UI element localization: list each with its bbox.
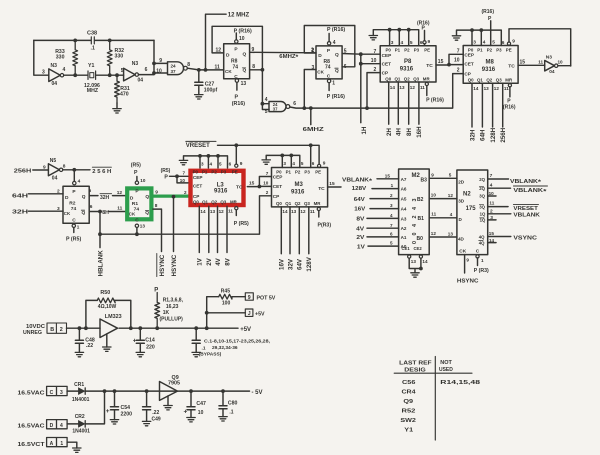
svg-text:Q3: Q3 <box>496 77 502 82</box>
wire L3 TC to M3 <box>247 177 271 189</box>
svg-text:2V: 2V <box>356 235 364 241</box>
svg-text:1K: 1K <box>163 310 170 316</box>
svg-text:NOT: NOT <box>440 360 452 366</box>
svg-text:Q: Q <box>243 68 247 74</box>
pullup P (R16) at M8 P2 pin5 <box>482 9 495 46</box>
svg-text:B: B <box>50 327 54 333</box>
svg-text:32H: 32H <box>100 195 110 201</box>
svg-text:CEP: CEP <box>382 53 392 58</box>
capacitor C80 .1 <box>219 389 238 421</box>
svg-text:CET: CET <box>273 184 283 189</box>
svg-text:HSYNC: HSYNC <box>171 254 178 276</box>
svg-text:04: 04 <box>549 69 555 75</box>
svg-text:2: 2 <box>457 67 460 73</box>
svg-text:14: 14 <box>422 259 428 264</box>
svg-text:P (R5): P (R5) <box>234 221 249 227</box>
pullup P (R16) below R8a <box>232 79 245 107</box>
svg-text:16H: 16H <box>416 126 423 138</box>
svg-text:M2: M2 <box>412 173 421 179</box>
svg-text:2 5 6 H: 2 5 6 H <box>92 169 111 175</box>
flip-flop N2 175 box <box>457 170 488 255</box>
svg-text:HBLANK: HBLANK <box>97 250 104 277</box>
wire HBLANK net <box>98 196 271 248</box>
pullup P (R16) at M8 MR <box>503 84 516 111</box>
svg-text:10: 10 <box>489 191 495 196</box>
svg-text:C.1-8,10-15,17-23,25,26,28,: C.1-8,10-15,17-23,25,26,28, <box>204 339 271 345</box>
svg-text:5: 5 <box>121 68 124 74</box>
svg-text:Q1: Q1 <box>285 201 291 206</box>
svg-text:16V: 16V <box>354 207 365 213</box>
svg-text:10: 10 <box>263 180 269 185</box>
svg-text:Q: Q <box>243 52 247 58</box>
svg-text:12: 12 <box>117 190 123 196</box>
svg-text:N3: N3 <box>546 55 552 61</box>
svg-text:7: 7 <box>266 171 269 176</box>
svg-text:(BYPASS): (BYPASS) <box>199 351 222 357</box>
pullup at M3 PE pin 9 <box>318 160 326 167</box>
svg-text:.1: .1 <box>91 46 95 52</box>
pullup P (R5) at L3 MR <box>234 207 249 227</box>
svg-text:10: 10 <box>156 68 162 74</box>
svg-text:10: 10 <box>140 178 146 183</box>
flip-flop R1 74 highlighted green box <box>127 188 151 223</box>
svg-text:64H: 64H <box>12 193 28 199</box>
svg-text:D: D <box>226 53 230 59</box>
label 10VDC UNREG <box>23 324 45 336</box>
svg-text:12 MHZ: 12 MHZ <box>228 13 250 19</box>
svg-text:PE: PE <box>424 48 430 53</box>
svg-text:12: 12 <box>494 86 500 91</box>
svg-text:C80: C80 <box>228 400 238 406</box>
svg-text:8H: 8H <box>406 128 413 136</box>
svg-text:Q: Q <box>82 194 86 200</box>
svg-text:Q3: Q3 <box>304 201 310 206</box>
svg-text:P: P <box>164 175 168 181</box>
svg-text:11: 11 <box>215 64 221 70</box>
svg-text:.22: .22 <box>152 410 159 416</box>
svg-text:2: 2 <box>390 193 393 198</box>
wire R1 Q to L3 CP highlighted green <box>151 189 190 196</box>
svg-text:+: + <box>184 409 188 416</box>
edge connector B2 <box>47 323 67 333</box>
svg-text:14: 14 <box>489 238 495 243</box>
ground rail above M8 <box>452 28 505 46</box>
wire N2 out VBLANK <box>488 208 540 218</box>
svg-text:330: 330 <box>56 54 65 60</box>
svg-text:(R5): (R5) <box>161 168 171 174</box>
pullup P (R5) at L3 CEP CET <box>161 168 188 183</box>
svg-text:13: 13 <box>140 223 146 228</box>
pullup pin4 P above R2 <box>73 170 81 185</box>
svg-text:1Q: 1Q <box>480 212 486 217</box>
svg-text:8V: 8V <box>224 257 231 265</box>
svg-text:4: 4 <box>401 40 404 46</box>
svg-text:TC: TC <box>508 64 515 70</box>
svg-text:VSYNC: VSYNC <box>513 235 537 241</box>
svg-text:Q2: Q2 <box>211 199 217 204</box>
svg-text:4Q: 4Q <box>479 234 485 239</box>
svg-text:11: 11 <box>489 201 494 206</box>
wire 12MHZ node <box>187 64 223 72</box>
svg-text:P2: P2 <box>404 48 410 53</box>
edge connector C3 <box>47 386 68 395</box>
wire P8 CP tap <box>367 73 380 109</box>
svg-text:8: 8 <box>155 203 158 209</box>
pin labels M3 left <box>263 171 269 195</box>
resistor R50 4A 10W <box>86 290 133 330</box>
svg-text:4D: 4D <box>458 237 465 242</box>
wire N2 out VSYNC <box>488 231 537 241</box>
svg-text:3Q: 3Q <box>479 194 485 199</box>
label 64H input <box>12 189 63 200</box>
ground rail above L3 <box>179 154 231 168</box>
svg-text:N3: N3 <box>132 61 139 67</box>
svg-text:13: 13 <box>291 209 297 214</box>
wire oscillator feedback top rail <box>34 39 154 43</box>
svg-text:11: 11 <box>117 205 122 211</box>
svg-text:P3: P3 <box>496 47 502 52</box>
svg-text:8: 8 <box>187 62 190 68</box>
svg-text:C56: C56 <box>402 380 415 386</box>
wire R1 Qbar HSYNCbar <box>153 203 162 251</box>
svg-text:Q9: Q9 <box>403 399 413 405</box>
wire oscillator left branch <box>34 40 49 75</box>
inverter N3c pins 11,10 (04) <box>538 55 563 75</box>
svg-text:4Q: 4Q <box>479 240 485 245</box>
wire regulator input <box>67 326 101 330</box>
svg-text:9: 9 <box>512 39 515 45</box>
svg-text:2: 2 <box>490 208 493 214</box>
edge connector D4 <box>47 420 68 429</box>
svg-text:74: 74 <box>325 65 331 71</box>
svg-text:P1: P1 <box>286 169 292 174</box>
wire R8a feedback loop D to Qbar <box>212 26 264 71</box>
svg-text:2H: 2H <box>386 128 393 136</box>
chip enables CE1 CE2 of M2 <box>402 246 428 277</box>
svg-text:D: D <box>50 423 54 429</box>
svg-text:4: 4 <box>390 213 393 218</box>
svg-text:CK: CK <box>225 69 232 74</box>
svg-text:(R16): (R16) <box>503 104 516 110</box>
svg-text:100: 100 <box>222 300 231 306</box>
svg-text:128H: 128H <box>490 127 497 142</box>
wire R8a Q output 6MHZ* <box>250 47 316 61</box>
label 16.5VAC row2 <box>18 424 46 430</box>
svg-text:CET: CET <box>382 62 392 67</box>
wire R2 Qbar 8H to R1 CK <box>89 204 125 216</box>
nand gate N2b 24/37 pins 4,5,6 <box>265 97 296 115</box>
pin labels P8 left <box>371 49 377 73</box>
svg-text:6: 6 <box>90 204 93 210</box>
svg-text:16.5VAC: 16.5VAC <box>18 424 46 430</box>
svg-text:4: 4 <box>292 161 295 166</box>
svg-text:1: 1 <box>77 224 80 229</box>
pullup P (R16) above R8b <box>327 27 345 45</box>
wire -5V rail <box>103 389 263 396</box>
flip-flop R8b 74 box <box>316 46 342 80</box>
flip-flop R8a 74 box <box>224 44 250 80</box>
svg-text:37: 37 <box>171 69 177 74</box>
svg-text:P: P <box>134 170 138 176</box>
svg-text:P3: P3 <box>221 170 227 175</box>
svg-text:13: 13 <box>399 85 405 90</box>
svg-text:2: 2 <box>57 189 60 195</box>
svg-text:4: 4 <box>490 182 493 188</box>
svg-text:J: J <box>248 311 251 317</box>
svg-text:12: 12 <box>219 209 225 214</box>
svg-text:9: 9 <box>428 39 431 45</box>
prom M2 box <box>399 169 430 255</box>
svg-text:R50: R50 <box>100 290 110 296</box>
svg-text:P8: P8 <box>404 59 412 65</box>
crystal Y1 12.096 MHZ <box>84 63 100 94</box>
svg-text:P (R5): P (R5) <box>66 236 81 242</box>
svg-text:L3: L3 <box>217 183 225 189</box>
label HSYNC <box>171 254 178 276</box>
wire M3 outputs 16V-128V <box>279 207 316 272</box>
wire 256Hbar node <box>63 167 112 175</box>
wire M8 outputs 32H-256H <box>469 83 509 142</box>
svg-text:2Q: 2Q <box>479 186 485 191</box>
wire HSYNC tap <box>172 195 176 252</box>
svg-text:VRESET: VRESET <box>513 206 538 212</box>
svg-text:15: 15 <box>489 231 495 236</box>
wire R8b clock from 6MHZ rail <box>302 70 316 111</box>
svg-text:74: 74 <box>233 64 239 70</box>
svg-text:5: 5 <box>219 161 222 166</box>
pullup P (R16) at P8 PE pin 9 <box>417 21 431 46</box>
svg-text:4: 4 <box>63 67 66 73</box>
svg-text:470: 470 <box>120 91 129 97</box>
svg-text:37: 37 <box>273 107 278 112</box>
svg-text:2: 2 <box>266 190 269 195</box>
svg-text:(R16): (R16) <box>232 101 245 107</box>
svg-text:PE: PE <box>232 170 238 175</box>
wire P8 TC to M8 <box>436 54 463 66</box>
svg-text:+5V: +5V <box>240 327 251 333</box>
svg-text:5: 5 <box>390 241 393 246</box>
svg-text:9: 9 <box>240 161 243 167</box>
svg-text:1N4001: 1N4001 <box>72 429 90 435</box>
wire inverter N3b output to NAND <box>139 74 155 76</box>
wire N2 out VBLANKbar <box>488 182 548 195</box>
svg-text:C27: C27 <box>205 81 215 87</box>
svg-text:29,32,34-36: 29,32,34-36 <box>212 345 238 351</box>
counter M8 9316 box <box>463 46 518 84</box>
wires M2 inputs <box>367 179 399 246</box>
svg-text:Q0: Q0 <box>468 77 474 82</box>
svg-text:330: 330 <box>115 53 124 59</box>
svg-text:D: D <box>65 195 69 201</box>
svg-text:MR: MR <box>423 77 431 82</box>
svg-text:.1: .1 <box>229 409 233 415</box>
svg-text:N2: N2 <box>463 192 471 198</box>
svg-text:1V: 1V <box>197 257 204 265</box>
svg-text:2: 2 <box>60 327 63 333</box>
label 16.5VCT row3 <box>18 442 45 448</box>
svg-text:VBLANK: VBLANK <box>513 212 540 218</box>
svg-text:13: 13 <box>241 81 247 87</box>
svg-text:B1: B1 <box>418 216 425 222</box>
svg-text:D: D <box>318 53 322 59</box>
pullup resistor R1-K 1K <box>154 287 183 330</box>
svg-text:Q: Q <box>335 52 339 58</box>
svg-text:1V: 1V <box>357 244 365 250</box>
resistor R45 100 and POT 5V <box>205 289 276 331</box>
svg-text:16V: 16V <box>279 258 286 270</box>
table last ref desig / not used <box>394 357 480 441</box>
capacitor C47 10 <box>184 389 207 422</box>
svg-text:10: 10 <box>198 410 204 416</box>
svg-text:1: 1 <box>60 441 63 447</box>
wire R2 Q 32Hbar to R1 D <box>89 188 126 201</box>
svg-text:16.5VCT: 16.5VCT <box>18 442 45 448</box>
svg-text:+5V: +5V <box>255 311 265 317</box>
svg-text:TC: TC <box>426 63 433 69</box>
svg-text:(PULLUP): (PULLUP) <box>160 317 184 323</box>
svg-text:4: 4 <box>78 178 81 184</box>
svg-text:6: 6 <box>312 161 315 166</box>
svg-text:SW2: SW2 <box>400 418 416 424</box>
stub N2 pin 3 <box>488 215 496 221</box>
svg-text:32H: 32H <box>469 129 476 141</box>
svg-text:6MHZ: 6MHZ <box>303 127 325 133</box>
svg-text:3: 3 <box>390 203 393 208</box>
svg-text:POT 5V: POT 5V <box>257 295 276 301</box>
svg-text:9316: 9316 <box>291 189 305 195</box>
svg-text:VRESET: VRESET <box>186 143 210 149</box>
svg-text:13: 13 <box>484 86 490 91</box>
svg-text:CR4: CR4 <box>402 389 416 395</box>
pullup P (R16) at P8 MR <box>425 82 444 103</box>
wire crystal row <box>64 73 124 77</box>
regulator LM323 <box>100 314 122 351</box>
svg-text:CK: CK <box>129 212 136 217</box>
svg-text:128V: 128V <box>352 186 367 192</box>
svg-text:13: 13 <box>210 209 216 214</box>
svg-text:N5: N5 <box>50 158 57 164</box>
svg-text:11: 11 <box>431 212 436 217</box>
svg-text:CK: CK <box>317 70 324 75</box>
svg-text:CET: CET <box>464 61 474 66</box>
regulator Q9 7905 <box>160 375 181 410</box>
svg-text:A6: A6 <box>401 187 407 192</box>
svg-text:256H: 256H <box>14 168 32 174</box>
svg-text:P2: P2 <box>211 170 217 175</box>
svg-text:CK: CK <box>64 211 71 216</box>
svg-text:11: 11 <box>310 209 315 214</box>
svg-text:5: 5 <box>301 161 304 166</box>
svg-text:C: C <box>50 390 54 396</box>
svg-text:B2: B2 <box>417 197 424 203</box>
svg-text:M8: M8 <box>486 60 495 66</box>
stub N2 pin 14 <box>488 238 496 243</box>
svg-text:5: 5 <box>265 109 268 115</box>
svg-text:PE: PE <box>506 47 512 52</box>
wire P8 outputs 2H 4H 8H 16H <box>386 82 425 138</box>
svg-text:12: 12 <box>300 209 306 214</box>
svg-text:Q: Q <box>335 68 339 74</box>
svg-text:12: 12 <box>448 193 454 198</box>
label VRESET <box>186 141 216 149</box>
svg-text:N3: N3 <box>51 63 58 69</box>
svg-text:CEP: CEP <box>464 53 474 58</box>
svg-text:8V: 8V <box>356 217 364 223</box>
svg-text:MR: MR <box>230 199 238 204</box>
svg-text:1: 1 <box>332 81 335 87</box>
svg-text:64H: 64H <box>480 129 487 141</box>
counter M3 9316 box <box>272 168 328 207</box>
svg-text:P (R16): P (R16) <box>234 28 252 34</box>
svg-text:9316: 9316 <box>400 66 414 72</box>
resistor R31 470 <box>115 75 130 103</box>
svg-text:7: 7 <box>457 49 460 55</box>
svg-text:9: 9 <box>248 295 251 301</box>
label 16.5VAC row1 <box>18 391 46 397</box>
svg-text:5: 5 <box>410 40 413 46</box>
pullup P (R3) at M3 MR <box>317 207 331 228</box>
svg-text:Q2: Q2 <box>404 77 410 82</box>
svg-text:11: 11 <box>538 59 543 64</box>
wire N2 out VRESET <box>488 201 539 213</box>
svg-text:3: 3 <box>473 39 476 45</box>
svg-text:1Q: 1Q <box>480 218 486 223</box>
svg-text:C49: C49 <box>152 416 161 422</box>
svg-text:3: 3 <box>60 390 63 396</box>
pullup P (R5) below R2 <box>66 224 81 242</box>
svg-text:14: 14 <box>473 86 479 91</box>
svg-text:1N4001: 1N4001 <box>72 397 90 403</box>
svg-text:P1: P1 <box>395 48 401 53</box>
svg-text:7: 7 <box>490 173 493 179</box>
wire feedback vertical node <box>152 40 167 75</box>
svg-text:3D: 3D <box>458 198 465 203</box>
capacitor C48 .22 <box>75 328 95 357</box>
svg-text:Q3: Q3 <box>220 199 226 204</box>
svg-text:R14,15,48: R14,15,48 <box>440 380 480 386</box>
wire M3 P3 to VRESET <box>310 145 312 167</box>
inverter N3b pins 5-6 (04) <box>121 61 148 84</box>
wire R8b Q to P8 CEP (1H) <box>342 52 380 65</box>
svg-text:C54: C54 <box>121 405 131 411</box>
inverter N3a pins 3-4 (04) <box>42 63 66 87</box>
svg-text:3Q: 3Q <box>479 204 485 209</box>
pin labels M8 left <box>454 49 460 74</box>
pullup P (R5) above R1 <box>131 163 146 185</box>
svg-text:11: 11 <box>228 209 233 214</box>
svg-text:P1: P1 <box>477 47 483 52</box>
svg-text:C14: C14 <box>145 338 155 344</box>
svg-text:15: 15 <box>249 181 255 187</box>
svg-text:5: 5 <box>89 188 92 194</box>
wire 12MHZ stub to label <box>206 13 250 70</box>
connector J +5V <box>207 309 265 317</box>
nand gate N2a 24/37 pins 9,10,8 <box>156 58 190 75</box>
svg-text:Q1: Q1 <box>395 77 401 82</box>
counter L3 9316 highlighted red box <box>191 170 244 205</box>
svg-text:C38: C38 <box>87 31 97 37</box>
svg-text:Q: Q <box>145 210 149 216</box>
wire M3 TC stub <box>328 181 341 187</box>
svg-text:CEP: CEP <box>193 175 203 180</box>
svg-text:7: 7 <box>390 223 393 228</box>
svg-text:B3: B3 <box>421 178 428 184</box>
pin labels R8a <box>216 36 256 87</box>
wire VRESET to L3 PE <box>235 145 243 167</box>
svg-text:3: 3 <box>42 70 45 76</box>
wires M2 outputs to N2 <box>429 172 457 237</box>
svg-text:P (R3): P (R3) <box>474 268 489 274</box>
